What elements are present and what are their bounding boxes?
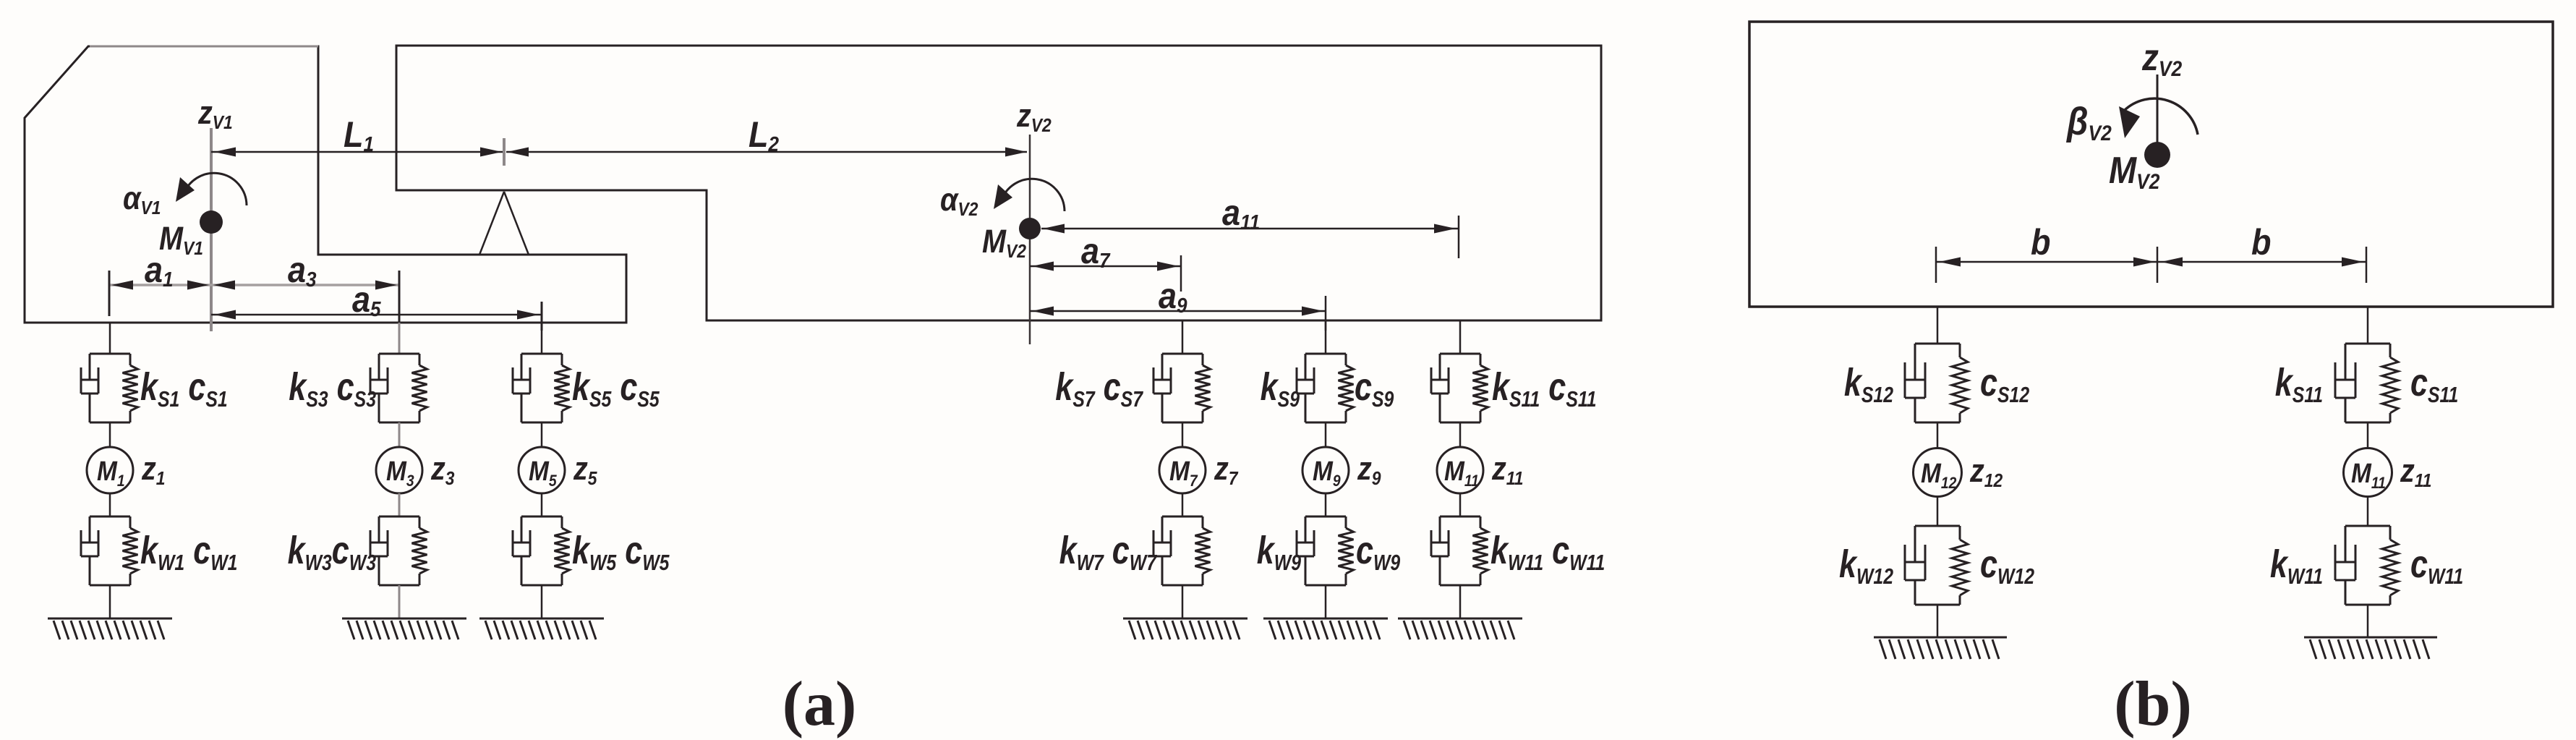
svg-text:kW5 cW5: kW5 cW5 [572, 530, 670, 575]
svg-text:L1: L1 [344, 115, 374, 156]
spring-damper ks7 cs7 [1153, 354, 1211, 422]
svg-text:kS12: kS12 [1844, 362, 1893, 407]
mass dot Mv1 [200, 210, 223, 234]
spring-damper kw9 cw9 [1297, 516, 1354, 585]
wire ks3 to M3 [398, 422, 401, 447]
spring-damper ks11 cs11 [1431, 354, 1488, 422]
mass dot Mv2 (fig a) [1019, 218, 1041, 239]
wire kw7 to ground [1182, 585, 1184, 618]
svg-text:cW11: cW11 [2410, 543, 2463, 589]
ground under kw9 [1263, 618, 1388, 639]
wire ks1 to M1 [109, 422, 111, 447]
svg-text:M11: M11 [1444, 456, 1479, 490]
svg-text:cS12: cS12 [1980, 362, 2029, 407]
dimension L2 [506, 148, 1027, 157]
svg-text:cW12: cW12 [1980, 543, 2034, 589]
svg-text:a7: a7 [1081, 231, 1111, 272]
wire kw9 to ground [1325, 585, 1327, 618]
mass M11 [1437, 447, 1483, 493]
rotation arrow alpha v2 [994, 179, 1065, 211]
wire body to ks12 [1937, 307, 1939, 344]
dimension a11 [1041, 216, 1459, 258]
ground under kw1 [48, 618, 172, 639]
svg-text:kW9: kW9 [1257, 530, 1302, 575]
dimension a9 [1030, 296, 1326, 331]
wire body to ks5 [541, 323, 543, 354]
mass M5 [519, 447, 565, 493]
svg-text:M7: M7 [1169, 456, 1198, 490]
mass M9 [1302, 447, 1349, 493]
wire ks7 to M7 [1182, 422, 1184, 447]
wire M11 to kw11 [1459, 493, 1462, 516]
mass dot Mv2 (fig b) [2144, 142, 2170, 168]
ground under kw12 [1874, 637, 2007, 659]
spring-damper ks12 cs12 [1905, 344, 1968, 422]
mass M7 [1159, 447, 1206, 493]
mass M11 (fig b) [2344, 448, 2392, 497]
svg-text:zV2: zV2 [2141, 37, 2182, 80]
dimension a3 [211, 271, 399, 331]
svg-text:cW9: cW9 [1356, 530, 1401, 575]
wire M7 to kw7 [1182, 493, 1184, 516]
wire body to ks9 [1325, 320, 1327, 354]
svg-text:b: b [2031, 223, 2050, 263]
svg-text:a3: a3 [288, 250, 317, 291]
wire M5 to kw5 [541, 493, 543, 516]
spring-damper kw11 cw11 (fig b) [2335, 526, 2398, 605]
svg-text:z1: z1 [141, 451, 165, 490]
svg-text:a9: a9 [1159, 276, 1187, 317]
dimension b left [1936, 247, 2157, 283]
wire kw5 to ground [541, 585, 543, 618]
wire M11b to kw11b [2367, 497, 2369, 526]
wire kw11 to ground [1459, 585, 1462, 618]
wire ks11 to M11 [1459, 422, 1462, 447]
dimension L1 [211, 148, 504, 157]
wire ks12 to M12 [1937, 422, 1939, 448]
svg-text:kS11 cS11: kS11 cS11 [1492, 366, 1597, 412]
svg-text:kW7 cW7: kW7 cW7 [1059, 530, 1158, 575]
svg-text:kS1 cS1: kS1 cS1 [140, 366, 228, 412]
mass M12 [1914, 448, 1962, 497]
ground under kw11 [1398, 618, 1522, 639]
spring-damper ks3 cs3 [370, 354, 427, 422]
svg-text:M1: M1 [97, 456, 125, 490]
spring-damper ks5 cs5 [513, 354, 570, 422]
spring-damper kw11 cw11 [1431, 516, 1488, 585]
spring-damper kw5 cw5 [513, 516, 570, 585]
wire kw1 to ground [109, 585, 111, 618]
tractor body outline [25, 46, 626, 323]
dimension b right [2158, 247, 2366, 283]
svg-text:M5: M5 [529, 456, 557, 490]
svg-text:M3: M3 [386, 456, 414, 490]
svg-text:kS11: kS11 [2275, 362, 2323, 407]
spring-damper kw7 cw7 [1153, 516, 1211, 585]
svg-text:z9: z9 [1357, 451, 1381, 490]
wire body to ks7 [1182, 320, 1184, 354]
ground under kw3 [342, 618, 466, 639]
spring-damper kw3 cw3 [370, 516, 427, 585]
svg-text:βV2: βV2 [2065, 99, 2112, 145]
svg-text:z5: z5 [573, 451, 597, 490]
svg-text:(a): (a) [782, 669, 857, 739]
svg-text:αV1: αV1 [123, 180, 161, 219]
svg-text:kS5 cS5: kS5 cS5 [572, 366, 660, 412]
svg-text:b: b [2251, 223, 2271, 263]
svg-text:L2: L2 [749, 115, 780, 156]
wire M3 to kw3 [398, 493, 401, 516]
svg-text:kW1 cW1: kW1 cW1 [140, 530, 237, 575]
wire ks5 to M5 [541, 422, 543, 447]
wire body to ks3 [398, 323, 401, 354]
rotation arrow alpha v1 [176, 173, 247, 205]
wire kw3 to ground [398, 585, 401, 618]
wire M12 to kw12 [1937, 497, 1939, 526]
spring-damper kw1 cw1 [81, 516, 138, 585]
spring-damper ks11 cs11 (fig b) [2335, 344, 2398, 422]
svg-text:M12: M12 [1921, 458, 1957, 492]
svg-text:cS9: cS9 [1355, 366, 1394, 412]
svg-text:z11: z11 [2400, 453, 2431, 492]
ground under kw7 [1123, 618, 1248, 639]
wire body to ks11b [2367, 307, 2369, 344]
svg-text:kS7 cS7: kS7 cS7 [1055, 366, 1143, 412]
wire body to ks1 [109, 323, 111, 354]
svg-text:kW12: kW12 [1839, 543, 1893, 589]
svg-text:zV2: zV2 [1016, 98, 1052, 137]
rotation arrow beta v2 [2119, 98, 2198, 138]
svg-text:a11: a11 [1222, 193, 1260, 234]
spring-damper ks1 cs1 [81, 354, 138, 422]
spring-damper kw12 cw12 [1905, 526, 1968, 605]
svg-text:z11: z11 [1491, 451, 1523, 490]
svg-text:kW3cW3: kW3cW3 [288, 530, 377, 575]
wire kw11b to ground [2367, 605, 2369, 637]
ground under kw11b [2304, 637, 2437, 659]
svg-text:kW11 cW11: kW11 cW11 [1490, 530, 1605, 575]
wire M9 to kw9 [1325, 493, 1327, 516]
svg-text:kS3 cS3: kS3 cS3 [289, 366, 376, 412]
tick L1/L2 junction [503, 138, 506, 166]
trailer body outline [396, 46, 1601, 320]
node zv2 axis (fig b) [2157, 75, 2159, 143]
svg-text:zV1: zV1 [197, 95, 233, 134]
node zv2 axis (fig a) [1029, 135, 1031, 344]
wire ks9 to M9 [1325, 422, 1327, 447]
dimension a5 [211, 302, 542, 331]
svg-text:cS11: cS11 [2410, 362, 2458, 407]
svg-text:αV2: αV2 [940, 182, 978, 221]
node zv1 axis [210, 128, 213, 331]
mass M3 [376, 447, 422, 493]
svg-text:z3: z3 [430, 451, 455, 490]
svg-text:M11: M11 [2351, 458, 2386, 492]
wire body to ks11 [1459, 320, 1462, 354]
axle body rectangle (fig b) [1749, 22, 2553, 307]
svg-text:kW11: kW11 [2270, 543, 2323, 589]
dimension a1 [109, 271, 211, 316]
wire ks11b to M11b [2367, 422, 2369, 448]
mass M1 [87, 447, 133, 493]
dimension a7 [1030, 255, 1181, 292]
wire kw12 to ground [1937, 605, 1939, 637]
svg-text:MV1: MV1 [159, 221, 203, 260]
svg-text:M9: M9 [1313, 456, 1341, 490]
wire M1 to kw1 [109, 493, 111, 516]
svg-text:kS9: kS9 [1261, 366, 1300, 412]
svg-text:z12: z12 [1969, 453, 2003, 492]
spring-damper ks9 cs9 [1297, 354, 1354, 422]
svg-text:z7: z7 [1214, 451, 1239, 490]
fifth-wheel hitch triangle [479, 192, 529, 255]
svg-text:(b): (b) [2114, 669, 2192, 739]
ground under kw5 [479, 618, 604, 639]
